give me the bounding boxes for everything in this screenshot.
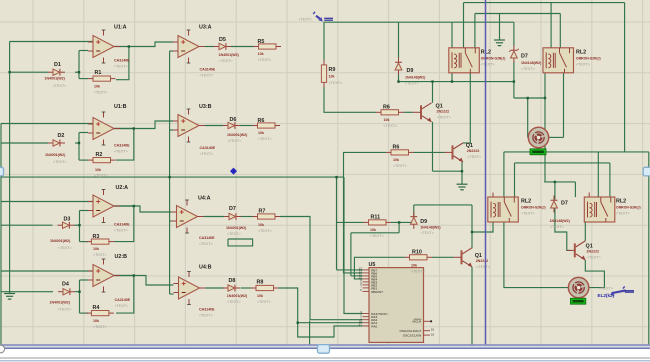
svg-text:<TEXT>: <TEXT> xyxy=(199,242,213,246)
svg-text:D7: D7 xyxy=(229,206,236,212)
svg-text:10k: 10k xyxy=(94,85,100,89)
svg-text:<TEXT>: <TEXT> xyxy=(258,137,272,141)
svg-text:<TEXT>: <TEXT> xyxy=(521,212,535,216)
svg-text:10k: 10k xyxy=(93,319,99,323)
svg-text:<TEXT>: <TEXT> xyxy=(58,308,72,312)
svg-text:10k: 10k xyxy=(393,158,399,162)
svg-text:CA3140E: CA3140E xyxy=(200,146,216,150)
svg-text:R7: R7 xyxy=(259,209,266,215)
svg-text:U3:B: U3:B xyxy=(199,104,212,110)
svg-text:R5: R5 xyxy=(258,39,265,45)
svg-text:2N2222: 2N2222 xyxy=(476,259,489,263)
svg-text:<TEXT>: <TEXT> xyxy=(93,325,107,329)
svg-text:<TEXT>: <TEXT> xyxy=(616,212,630,216)
svg-text:<TEXT>: <TEXT> xyxy=(53,160,67,164)
svg-text:10k: 10k xyxy=(370,228,376,232)
svg-text:<TEXT>: <TEXT> xyxy=(258,58,272,62)
svg-text:<TEXT>: <TEXT> xyxy=(257,300,271,304)
svg-text:<TEXT>: <TEXT> xyxy=(93,253,107,257)
svg-text:2N2222: 2N2222 xyxy=(437,110,450,114)
svg-text:CA3140E: CA3140E xyxy=(114,223,130,227)
svg-text:U2:B: U2:B xyxy=(115,254,128,260)
svg-text:MCLR: MCLR xyxy=(413,320,423,324)
svg-text:D1: D1 xyxy=(54,62,61,68)
svg-text:<TEXT>: <TEXT> xyxy=(114,150,128,154)
svg-text:<TEXT>: <TEXT> xyxy=(94,174,108,178)
svg-text:U4:A: U4:A xyxy=(198,196,211,202)
svg-text:10k: 10k xyxy=(384,118,390,122)
svg-text:D7: D7 xyxy=(561,201,568,207)
svg-text:D7: D7 xyxy=(521,54,528,60)
svg-text:<TEXT>: <TEXT> xyxy=(405,82,419,86)
svg-text:U5: U5 xyxy=(369,262,376,268)
svg-text:1N4001(W2): 1N4001(W2) xyxy=(50,239,71,243)
svg-text:<TEXT>: <TEXT> xyxy=(599,287,613,291)
svg-text:R2: R2 xyxy=(96,152,103,158)
svg-text:16: 16 xyxy=(431,332,435,336)
svg-text:10k: 10k xyxy=(258,131,264,135)
svg-text:D9: D9 xyxy=(407,68,414,74)
svg-text:RL2: RL2 xyxy=(616,199,626,205)
svg-text:<TEXT>: <TEXT> xyxy=(114,229,128,233)
svg-text:1N4148(W2): 1N4148(W2) xyxy=(521,61,542,65)
svg-text:10k: 10k xyxy=(95,168,101,172)
svg-text:OMRON-G2R(J): OMRON-G2R(J) xyxy=(576,57,601,61)
svg-text:R8: R8 xyxy=(257,280,264,286)
svg-text:D2: D2 xyxy=(58,133,65,139)
svg-text:R6: R6 xyxy=(383,105,390,111)
svg-text:<TEXT>: <TEXT> xyxy=(228,139,242,143)
svg-text:<TEXT>: <TEXT> xyxy=(219,59,233,63)
svg-text:<TEXT>: <TEXT> xyxy=(53,84,67,88)
svg-text:R6: R6 xyxy=(258,118,265,124)
svg-text:<TEXT>: <TEXT> xyxy=(227,300,241,304)
svg-text:<TEXT>: <TEXT> xyxy=(420,231,434,235)
svg-text:D6: D6 xyxy=(230,117,237,123)
svg-text:10k: 10k xyxy=(93,247,99,251)
svg-text:RB0/INT: RB0/INT xyxy=(371,290,383,294)
svg-text:<TEXT>: <TEXT> xyxy=(114,65,128,69)
svg-text:10k: 10k xyxy=(257,294,263,298)
svg-text:R9: R9 xyxy=(329,67,336,73)
svg-text:<TEXT>: <TEXT> xyxy=(384,124,398,128)
svg-text:OMRON-G2R(J): OMRON-G2R(J) xyxy=(521,206,546,210)
svg-text:1N4001(W2): 1N4001(W2) xyxy=(227,294,248,298)
svg-text:<TEXT>: <TEXT> xyxy=(411,270,425,274)
svg-text:<TEXT>: <TEXT> xyxy=(299,18,313,22)
svg-text:U1:A: U1:A xyxy=(114,25,127,31)
svg-text:RL2: RL2 xyxy=(576,50,586,56)
svg-text:R6: R6 xyxy=(393,145,400,151)
svg-text:<TEXT>: <TEXT> xyxy=(227,232,241,236)
svg-text:1N4001(W2): 1N4001(W2) xyxy=(45,77,66,81)
svg-text:D4: D4 xyxy=(62,282,69,288)
svg-text:CA3140E: CA3140E xyxy=(115,298,131,302)
svg-text:<TEXT>: <TEXT> xyxy=(58,246,72,250)
svg-text:1N4001(W2): 1N4001(W2) xyxy=(227,133,248,137)
svg-text:R11: R11 xyxy=(371,215,381,221)
svg-text:U4:B: U4:B xyxy=(199,265,212,271)
svg-text:1N4148(W2): 1N4148(W2) xyxy=(405,76,426,80)
svg-text:1N4001(W2): 1N4001(W2) xyxy=(219,53,240,57)
svg-text:<TEXT>: <TEXT> xyxy=(393,164,407,168)
svg-text:<TEXT>: <TEXT> xyxy=(200,74,214,78)
svg-text:1N4001(W2): 1N4001(W2) xyxy=(50,301,71,305)
svg-text:<TEXT>: <TEXT> xyxy=(115,304,129,308)
svg-text:1N4148(W2): 1N4148(W2) xyxy=(420,226,441,230)
svg-text:<TEXT>: <TEXT> xyxy=(521,67,535,71)
svg-text:10k: 10k xyxy=(329,75,335,79)
svg-text:OSC2/CLKOUT: OSC2/CLKOUT xyxy=(399,329,421,333)
svg-text:<TEXT>: <TEXT> xyxy=(370,234,384,238)
svg-text:<TEXT>: <TEXT> xyxy=(258,229,272,233)
svg-text:2N2222: 2N2222 xyxy=(467,149,480,153)
svg-text:<TEXT>: <TEXT> xyxy=(329,81,343,85)
svg-text:OMRON-G2R(J): OMRON-G2R(J) xyxy=(616,206,641,210)
svg-text:CA3140E: CA3140E xyxy=(200,68,216,72)
svg-text:<TEXT>: <TEXT> xyxy=(437,116,451,120)
svg-text:<TEXT>: <TEXT> xyxy=(481,63,495,67)
svg-text:<TEXT>: <TEXT> xyxy=(467,155,481,159)
svg-text:D5: D5 xyxy=(219,37,226,43)
svg-text:CA3140E: CA3140E xyxy=(199,308,215,312)
svg-text:R1: R1 xyxy=(95,70,102,76)
svg-text:1N4148(W2): 1N4148(W2) xyxy=(550,219,571,223)
svg-text:<TEXT>: <TEXT> xyxy=(200,152,214,156)
svg-text:U3:A: U3:A xyxy=(199,25,212,31)
svg-text:CA3140E: CA3140E xyxy=(114,59,130,63)
svg-text:D3: D3 xyxy=(64,217,71,223)
svg-text:D8: D8 xyxy=(229,278,236,284)
svg-text:CA3140E: CA3140E xyxy=(199,236,215,240)
svg-text:U1:B: U1:B xyxy=(114,104,127,110)
svg-text:D9: D9 xyxy=(420,219,427,225)
svg-text:17: 17 xyxy=(359,323,363,327)
svg-text:10k: 10k xyxy=(258,223,264,227)
svg-text:OMRON-G2R(J): OMRON-G2R(J) xyxy=(481,57,506,61)
svg-text:<TEXT>: <TEXT> xyxy=(576,63,590,67)
svg-text:OSC1/CLKIN: OSC1/CLKIN xyxy=(403,334,421,338)
svg-text:<TEXT>: <TEXT> xyxy=(550,225,564,229)
svg-text:R10: R10 xyxy=(412,250,422,256)
svg-text:<TEXT>: <TEXT> xyxy=(476,265,490,269)
svg-text:15: 15 xyxy=(431,328,435,332)
svg-text:R4: R4 xyxy=(93,305,100,311)
svg-text:<TEXT>: <TEXT> xyxy=(199,314,213,318)
svg-text:1N4001(W2): 1N4001(W2) xyxy=(226,226,247,230)
svg-text:R3: R3 xyxy=(93,234,100,240)
svg-text:U2:A: U2:A xyxy=(116,185,129,191)
svg-text:<TEXT>: <TEXT> xyxy=(94,91,108,95)
svg-text:10k: 10k xyxy=(258,52,264,56)
svg-text:CA3140E: CA3140E xyxy=(114,144,130,148)
svg-text:2N2222: 2N2222 xyxy=(587,250,600,254)
svg-text:RL2: RL2 xyxy=(521,199,531,205)
svg-text:1N4001(W2): 1N4001(W2) xyxy=(45,153,66,157)
svg-text:RA0: RA0 xyxy=(371,324,377,328)
svg-text:10k: 10k xyxy=(411,264,417,268)
svg-text:<TEXT>: <TEXT> xyxy=(587,256,601,260)
